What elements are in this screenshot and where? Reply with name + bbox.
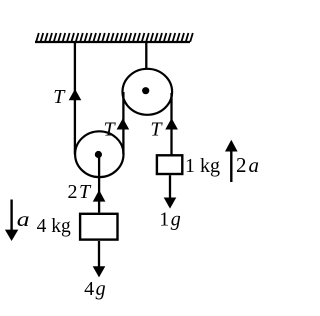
- arrowhead down 4g: [93, 266, 106, 277]
- wire weight rope below 4kg box: [98, 241, 100, 268]
- wire right rope ceiling to top pulley: [145, 42, 147, 70]
- wire right rope pulley to 1kg box: [170, 93, 172, 155]
- mass box 4 kg: [80, 214, 117, 240]
- acceleration arrow 2a: [230, 149, 232, 182]
- axle dot top pulley: [142, 87, 149, 94]
- arrowhead up on left rope: [69, 89, 82, 100]
- svg-text:2a: 2a: [236, 153, 259, 177]
- axle dot lower pulley: [95, 151, 102, 158]
- wire weight rope below 1kg box: [169, 175, 171, 200]
- arrowhead down 1g: [164, 198, 177, 209]
- pulley lower: [75, 131, 123, 177]
- arrowhead up 2a: [225, 140, 238, 152]
- mass box 1 kg: [157, 155, 182, 174]
- svg-text:a: a: [17, 208, 30, 231]
- arrowhead up on right rope: [165, 118, 178, 129]
- wire 2T rope pulley axle to 4kg box: [98, 155, 100, 213]
- ceiling line: [35, 41, 190, 43]
- acceleration arrow a (left): [10, 200, 12, 233]
- svg-text:T: T: [104, 118, 117, 140]
- svg-text:4 kg: 4 kg: [37, 216, 71, 237]
- ceiling hatching: [36, 33, 193, 42]
- svg-text:T: T: [53, 86, 66, 108]
- svg-text:1g: 1g: [159, 208, 181, 230]
- wire middle rope between pulleys: [122, 92, 124, 154]
- arrowhead down a: [5, 230, 18, 241]
- svg-text:4g: 4g: [84, 278, 106, 300]
- wire left rope ceiling to lower pulley: [74, 42, 76, 155]
- arrowhead up 2T: [93, 190, 106, 202]
- svg-text:1 kg: 1 kg: [185, 155, 220, 177]
- arrowhead up on middle rope: [117, 118, 130, 129]
- pulley top: [123, 69, 173, 115]
- svg-text:2T: 2T: [68, 181, 93, 203]
- svg-text:T: T: [150, 118, 163, 140]
